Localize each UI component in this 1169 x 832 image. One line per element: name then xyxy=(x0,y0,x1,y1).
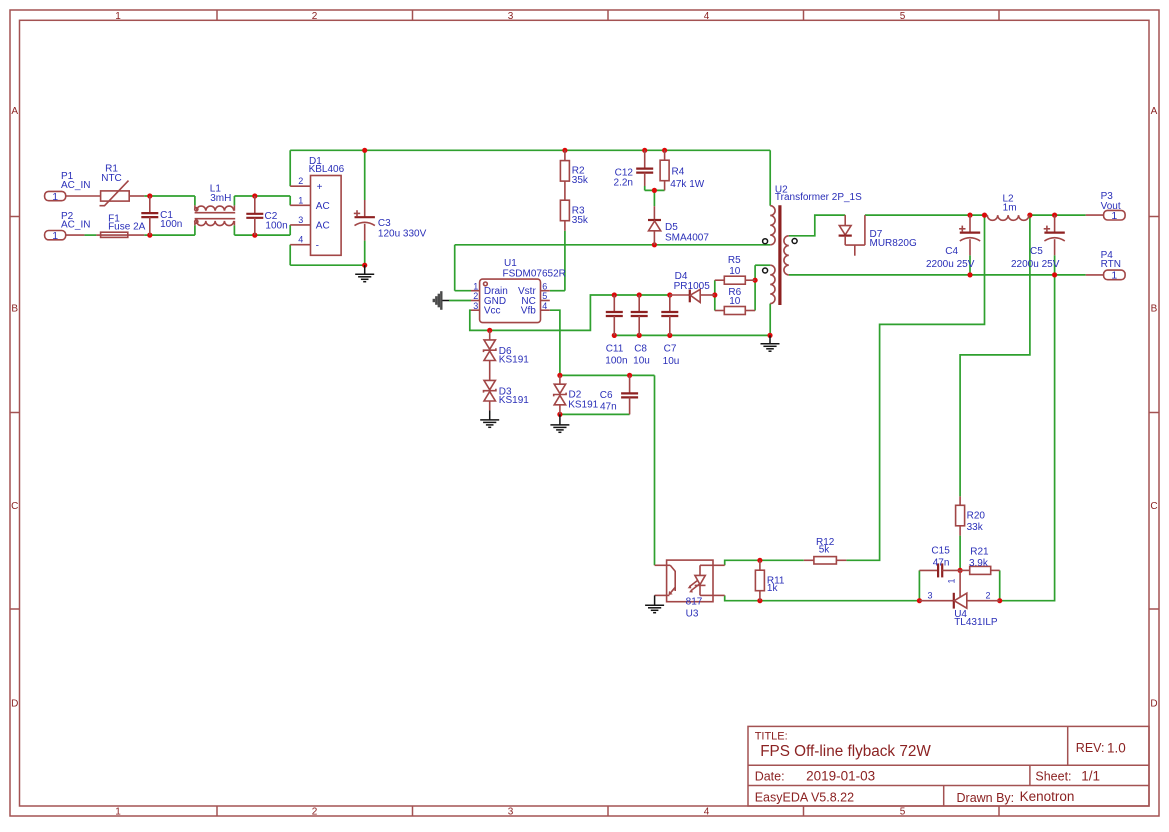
svg-text:KS191: KS191 xyxy=(499,395,529,406)
svg-text:2: 2 xyxy=(473,291,478,301)
junction dots RTN rail xyxy=(967,272,1057,277)
svg-text:1/1: 1/1 xyxy=(1081,768,1100,783)
svg-text:35k: 35k xyxy=(572,175,589,186)
wire net U1 GND pin to ground arrow xyxy=(449,300,471,302)
svg-text:2: 2 xyxy=(298,176,303,186)
svg-text:U1: U1 xyxy=(504,258,517,269)
svg-text:2: 2 xyxy=(985,591,990,601)
svg-text:3: 3 xyxy=(927,591,932,601)
svg-text:-: - xyxy=(316,240,319,251)
svg-text:Vout: Vout xyxy=(1101,201,1121,212)
svg-text:4: 4 xyxy=(704,11,710,22)
svg-text:KS191: KS191 xyxy=(568,400,598,411)
svg-text:47n: 47n xyxy=(933,557,950,568)
shunt regulator U4 TL431ILP xyxy=(919,570,999,608)
svg-text:35k: 35k xyxy=(572,215,589,226)
junction dot drain bus at D5 xyxy=(652,242,657,247)
wire net AC neutral (P2 to fuse to C1/L1 bottom) xyxy=(84,225,194,235)
junction dots feedback row xyxy=(757,558,1002,604)
wire net Vfb (U1 pin4 to D2, C6, opto collector riser) xyxy=(550,310,655,565)
svg-text:4: 4 xyxy=(298,235,303,245)
junction dot clamp node xyxy=(652,188,657,193)
svg-text:1: 1 xyxy=(52,191,58,203)
diode D7 MUR820G xyxy=(839,215,865,256)
U1 pin 4 stub (Vfb) xyxy=(541,309,550,311)
wire net Vstr (U1 pin6 to R3 bottom) xyxy=(550,231,565,291)
svg-text:C: C xyxy=(11,501,18,512)
transformer U2 secondary polarity circle xyxy=(792,239,797,244)
capacitor C7 xyxy=(661,295,678,335)
frame row labels left A-D xyxy=(11,106,18,710)
ground at transformer aux xyxy=(761,335,780,351)
wire net R20 bottom to C15/R21 node xyxy=(959,536,961,571)
svg-text:FSDM07652R: FSDM07652R xyxy=(503,269,566,280)
inductor L1 common-mode choke xyxy=(195,205,236,225)
svg-text:1: 1 xyxy=(947,578,957,583)
resistor R11 xyxy=(755,560,764,600)
frame row ticks right xyxy=(1149,217,1159,610)
svg-text:C4: C4 xyxy=(945,246,958,257)
svg-text:KBL406: KBL406 xyxy=(309,164,345,175)
svg-text:5: 5 xyxy=(542,291,547,301)
wire net drain bus (U1 pin1, D5, snubber, primary bottom) xyxy=(455,245,771,291)
resistor R20 xyxy=(956,496,965,535)
wire net D2 anode to C6 bottom xyxy=(560,413,630,415)
title block Sheet divider xyxy=(1029,765,1031,785)
svg-text:D5: D5 xyxy=(665,222,678,233)
IC U1 FSDM07652R box xyxy=(480,279,541,323)
zener D2 KS191 xyxy=(554,375,566,414)
ground at D3 xyxy=(480,410,499,427)
U3 light arrows xyxy=(688,580,700,592)
resistor R4 xyxy=(660,150,669,190)
svg-text:4: 4 xyxy=(542,301,547,311)
capacitor C3 (bulk, polarized) xyxy=(354,200,375,241)
svg-text:C11: C11 xyxy=(606,343,624,354)
svg-text:C15: C15 xyxy=(931,546,950,557)
svg-text:R20: R20 xyxy=(967,511,986,522)
svg-text:EasyEDA V5.8.22: EasyEDA V5.8.22 xyxy=(755,790,854,804)
capacitor C12 xyxy=(636,150,653,186)
svg-text:Vfb: Vfb xyxy=(521,306,536,317)
svg-text:1: 1 xyxy=(298,195,303,205)
inductor L2 xyxy=(987,215,1029,220)
junction dots Vcc cap tops xyxy=(612,292,718,297)
wire net clamp node (C12/R4 bottom to D5 anode) xyxy=(645,186,665,206)
wire net RTN bottom rail (secondary return to C4,C5,P4) xyxy=(789,274,1086,276)
junction dots HV bus xyxy=(362,148,667,268)
junction dots ground rail xyxy=(612,333,773,338)
wire C5 bottom lead connection xyxy=(1054,255,1056,275)
svg-text:5: 5 xyxy=(900,806,906,817)
svg-text:FPS Off-line flyback 72W: FPS Off-line flyback 72W xyxy=(760,743,931,760)
svg-text:U3: U3 xyxy=(686,608,699,619)
title block REV divider xyxy=(1067,726,1069,765)
svg-text:Fuse 2A: Fuse 2A xyxy=(108,222,146,233)
svg-text:3.9k: 3.9k xyxy=(969,558,989,569)
U1 pin 2 stub (GND) xyxy=(471,300,480,302)
wire net R21 right to TL431 pin2 xyxy=(999,570,1001,600)
svg-text:1k: 1k xyxy=(767,583,779,594)
svg-text:2.2n: 2.2n xyxy=(614,178,633,189)
transformer U2 secondary winding xyxy=(784,236,789,275)
D1 pin 3 stub xyxy=(290,224,310,226)
frame row labels right A-D xyxy=(1150,106,1157,710)
U1 pin 3 stub (Vcc) xyxy=(471,309,480,311)
diode D5 SMA4007 xyxy=(648,206,661,245)
junction dots Vfb row xyxy=(557,373,632,417)
svg-text:1: 1 xyxy=(115,806,121,817)
svg-text:Vcc: Vcc xyxy=(484,306,501,317)
title block row line 2 xyxy=(748,785,1149,787)
svg-text:2200u 25V: 2200u 25V xyxy=(926,259,975,270)
svg-text:Date:: Date: xyxy=(755,770,785,784)
resistor R12 xyxy=(804,557,847,564)
svg-text:C5: C5 xyxy=(1030,246,1043,257)
wire net D4 anode to R5/R6 left xyxy=(714,280,716,310)
svg-text:3mH: 3mH xyxy=(210,193,231,204)
svg-text:MUR820G: MUR820G xyxy=(870,238,917,249)
frame row ticks left xyxy=(10,217,20,610)
svg-text:Sheet:: Sheet: xyxy=(1035,770,1071,784)
svg-text:B: B xyxy=(1151,304,1158,315)
wire C3 bottom lead connection xyxy=(364,241,366,266)
svg-text:R5: R5 xyxy=(728,255,741,266)
resistor R2 xyxy=(560,150,569,200)
svg-text:AC: AC xyxy=(316,221,330,232)
port P3 Vout xyxy=(1086,210,1125,222)
svg-text:3: 3 xyxy=(473,301,478,311)
title block box xyxy=(748,726,1149,806)
svg-text:3: 3 xyxy=(508,11,514,22)
wire net Vout top rail (D7 cathode to C4, L2, P3) xyxy=(865,214,1086,216)
capacitor C4 (polarized) xyxy=(959,215,980,255)
svg-text:R21: R21 xyxy=(970,547,989,558)
U1 pin 5 stub (NC) xyxy=(541,300,550,302)
svg-text:SMA4007: SMA4007 xyxy=(665,233,709,244)
wire C3 top lead connection xyxy=(364,150,366,200)
svg-text:10: 10 xyxy=(729,296,741,307)
port P4 RTN xyxy=(1086,270,1125,282)
svg-text:PR1005: PR1005 xyxy=(674,281,711,292)
resistor R5 xyxy=(715,276,755,284)
wire net HV+ top bus (D1 pin2 to C3,R2,C12,R4, transformer primary) xyxy=(290,150,770,205)
svg-text:47k 1W: 47k 1W xyxy=(670,179,704,190)
U1 pin 1 stub (Drain) xyxy=(471,290,480,292)
resistor R6 xyxy=(715,307,755,315)
junction dots AC input nodes xyxy=(147,193,257,237)
svg-text:RTN: RTN xyxy=(1101,259,1121,270)
wire net L1 out top to C2 to D1 pin1 xyxy=(234,196,290,205)
wire net R5/R6 right to aux winding top xyxy=(755,265,770,310)
junction dots Vout rail xyxy=(967,213,1057,218)
junction dot R5 right xyxy=(753,278,758,283)
svg-text:D: D xyxy=(11,699,18,710)
zener D3 KS191 xyxy=(484,361,496,411)
wire C4 bottom lead connection xyxy=(969,255,971,275)
ground at U3 emitter xyxy=(645,595,664,612)
zener D6 KS191 xyxy=(484,330,496,360)
capacitor C11 xyxy=(606,295,623,335)
wire net Vout sense to R12 (feedback) xyxy=(846,215,984,560)
wire net primary side ground rail (C11,C8,C7 bottoms to transformer aux gnd) xyxy=(614,334,770,336)
transformer U2 core bar xyxy=(778,205,781,305)
svg-text:1: 1 xyxy=(115,11,121,22)
svg-text:B: B xyxy=(11,304,18,315)
frame column labels bottom 1-5 xyxy=(115,806,906,817)
title block DrawnBy divider xyxy=(943,786,945,807)
svg-text:100n: 100n xyxy=(160,219,182,230)
svg-text:100n: 100n xyxy=(265,220,287,231)
capacitor C1 xyxy=(141,196,158,235)
wire net aux winding bottom to ground xyxy=(769,304,771,336)
port P2 AC_IN xyxy=(45,230,66,242)
svg-text:1.0: 1.0 xyxy=(1107,740,1126,755)
svg-text:TITLE:: TITLE: xyxy=(755,731,788,743)
svg-text:C8: C8 xyxy=(634,343,647,354)
svg-text:Transformer 2P_1S: Transformer 2P_1S xyxy=(775,192,862,203)
wire net secondary top to D7 anode xyxy=(789,215,845,236)
svg-text:2200u 25V: 2200u 25V xyxy=(1011,259,1060,270)
svg-text:10u: 10u xyxy=(663,356,680,367)
U3 transistor (phototransistor) xyxy=(655,565,676,595)
svg-text:817: 817 xyxy=(686,597,703,608)
junction dot Vcc at D6 xyxy=(487,328,492,333)
transformer U2 aux polarity circle xyxy=(763,268,768,273)
svg-text:3: 3 xyxy=(298,215,303,225)
D1 pin 1 stub xyxy=(290,204,310,206)
D1 pin 4 stub xyxy=(290,244,310,246)
diode D4 PR1005 xyxy=(670,289,715,302)
U3 LED xyxy=(695,565,725,595)
wire net RTN to TL431 pin2 xyxy=(1000,275,1055,601)
svg-text:+: + xyxy=(317,182,323,193)
wire net HV- (D1 pin4 to C3 bottom, primary ground) xyxy=(290,245,365,266)
svg-text:2: 2 xyxy=(312,806,318,817)
svg-text:Drawn By:: Drawn By: xyxy=(957,791,1015,805)
svg-text:R4: R4 xyxy=(672,167,685,178)
transformer U2 primary winding xyxy=(770,206,775,245)
svg-text:C3: C3 xyxy=(378,218,391,229)
capacitor C5 (polarized) xyxy=(1044,215,1065,255)
svg-text:10u: 10u xyxy=(633,356,650,367)
svg-text:3: 3 xyxy=(508,806,514,817)
svg-text:C7: C7 xyxy=(664,344,677,355)
svg-text:6: 6 xyxy=(542,281,547,291)
wire net opto cathode rail (U3 to R11 bottom, TL431 pin3) xyxy=(725,595,920,600)
capacitor C6 xyxy=(621,375,638,414)
bridge rectifier D1 KBL406 xyxy=(311,176,342,256)
svg-text:1: 1 xyxy=(473,281,478,291)
svg-text:5: 5 xyxy=(900,11,906,22)
svg-text:100n: 100n xyxy=(605,356,627,367)
svg-text:C: C xyxy=(1150,501,1157,512)
optocoupler U3 PC817 box xyxy=(667,560,713,602)
svg-text:AC: AC xyxy=(316,201,330,212)
svg-text:2019-01-03: 2019-01-03 xyxy=(806,768,875,783)
svg-text:TL431ILP: TL431ILP xyxy=(954,617,998,628)
capacitor C15 xyxy=(919,563,960,577)
port P1 AC_IN xyxy=(45,191,66,203)
D1 pin 2 stub xyxy=(290,185,310,187)
wire net L1 out bottom to C2 to D1 pin3 xyxy=(234,225,290,235)
svg-text:C6: C6 xyxy=(600,390,613,401)
svg-text:AC_IN: AC_IN xyxy=(61,180,90,191)
frame column ticks bottom xyxy=(217,806,999,816)
resistor R21 xyxy=(960,566,1000,574)
U1 pin 6 stub (Vstr) xyxy=(541,290,550,292)
svg-text:KS191: KS191 xyxy=(499,354,529,365)
svg-text:A: A xyxy=(1151,106,1158,117)
wire net AC line (P1 to NTC to C1/L1 top) xyxy=(144,196,195,205)
wire net opto anode row (U3 to R11 top, R12 left) xyxy=(725,560,804,565)
svg-text:10: 10 xyxy=(729,266,741,277)
capacitor C2 xyxy=(246,196,263,235)
capacitor C8 xyxy=(631,295,648,335)
svg-text:D: D xyxy=(1150,699,1157,710)
transformer U2 aux winding xyxy=(770,265,775,303)
svg-text:47n: 47n xyxy=(600,402,617,413)
svg-text:1: 1 xyxy=(52,230,58,242)
wire net Vcc rail (U1 pin3 to D6, riser, cap tops, D4) xyxy=(470,295,670,330)
ground at C3 xyxy=(355,265,374,282)
ground arrow at U1 GND pin xyxy=(434,291,449,310)
svg-text:1: 1 xyxy=(1111,270,1117,282)
svg-text:NTC: NTC xyxy=(101,173,122,184)
svg-text:2: 2 xyxy=(312,11,318,22)
svg-text:33k: 33k xyxy=(967,522,984,533)
svg-text:A: A xyxy=(11,106,18,117)
transformer U2 primary polarity circle xyxy=(763,239,768,244)
frame column ticks top xyxy=(217,10,999,20)
fuse F1 xyxy=(66,232,145,237)
resistor R3 xyxy=(560,200,569,231)
svg-text:Kenotron: Kenotron xyxy=(1020,789,1075,804)
svg-text:120u 330V: 120u 330V xyxy=(378,228,427,239)
frame column labels top 1-5 xyxy=(115,11,906,22)
ground at D2 xyxy=(550,414,569,432)
wire net C15 left to TL431 pin3 rail xyxy=(918,570,920,600)
wire net Vout to R20 xyxy=(960,215,1030,496)
svg-text:4: 4 xyxy=(704,806,710,817)
svg-text:1m: 1m xyxy=(1003,202,1017,213)
svg-text:REV:: REV: xyxy=(1076,741,1105,755)
svg-text:5k: 5k xyxy=(819,544,831,555)
title block row line 1 xyxy=(748,764,1149,766)
svg-text:AC_IN: AC_IN xyxy=(61,220,90,231)
resistor R1 (NTC) xyxy=(66,181,145,206)
